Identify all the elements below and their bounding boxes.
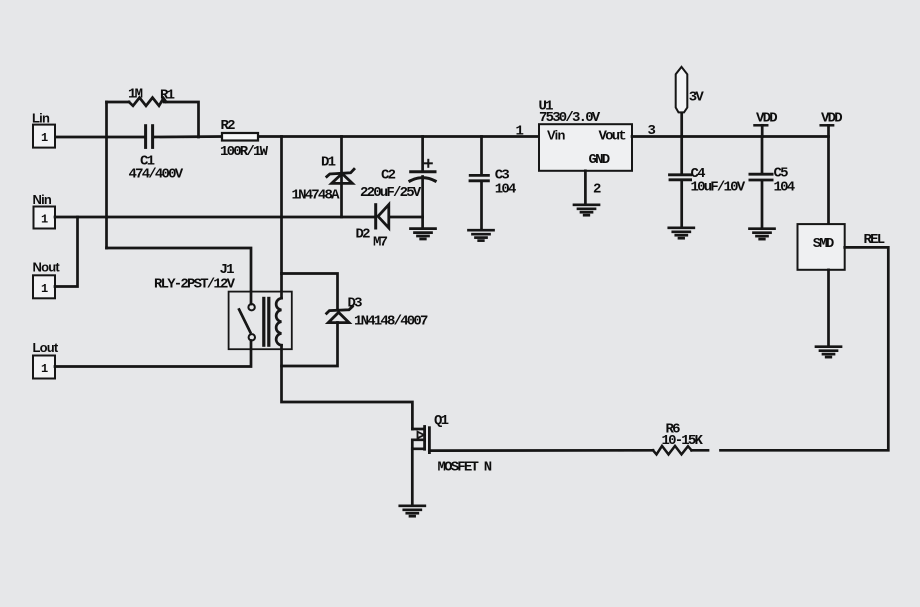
svg-text:474/400V: 474/400V (129, 167, 184, 183)
relay switch contact bottom (249, 334, 255, 340)
wire: neutral line Nin to D2 (55, 216, 374, 219)
svg-text:Nin: Nin (33, 192, 52, 207)
svg-text:1N4748A: 1N4748A (292, 188, 341, 204)
ground under C5 (750, 229, 775, 239)
diode D2 (376, 205, 389, 228)
svg-text:C2: C2 (381, 168, 396, 184)
capacitor C3 (480, 137, 483, 176)
relay J1 box (229, 292, 292, 350)
ground under Q1 (400, 506, 425, 516)
arrow (418, 432, 425, 439)
terminal Lin (33, 125, 55, 148)
capacitor C1 (146, 126, 153, 148)
drain jog (412, 428, 424, 431)
svg-text:104: 104 (495, 182, 516, 198)
ground under U1 (574, 205, 599, 215)
svg-text:M7: M7 (373, 235, 388, 251)
svg-text:2: 2 (593, 182, 601, 198)
relay switch contact top (248, 304, 254, 310)
wire: D3 top branch (282, 274, 338, 310)
capacitor C5 (761, 137, 764, 174)
relay coil (276, 298, 281, 345)
battery 3V (680, 113, 683, 137)
svg-text:100R/1W: 100R/1W (220, 144, 269, 160)
svg-text:Nout: Nout (33, 260, 61, 275)
svg-text:R2: R2 (221, 118, 236, 134)
wire: VDD down to SMD (827, 125, 830, 224)
ground under C2 (411, 229, 436, 239)
svg-text:MOSFET N: MOSFET N (438, 460, 492, 476)
resistor R6 zigzag (653, 446, 692, 455)
diode D3 (327, 307, 353, 323)
svg-text:REL: REL (864, 232, 885, 248)
svg-text:Vin: Vin (547, 128, 565, 143)
svg-text:D2: D2 (356, 227, 371, 243)
wire: R6 to MOSFET gate (692, 449, 709, 452)
wire: R1 bypass branch verticals (105, 102, 108, 248)
capacitor C4 (680, 137, 683, 175)
svg-text:1M: 1M (128, 87, 143, 103)
U1 GND pin wire (584, 171, 587, 204)
svg-text:RLY-2PST/12V: RLY-2PST/12V (154, 277, 236, 293)
terminal Lout (33, 356, 55, 379)
svg-text:SMD: SMD (813, 236, 834, 252)
wire: relay coil bottom to MOSFET drain (282, 345, 413, 429)
wire: U1 Vout output line (632, 135, 829, 138)
svg-text:1: 1 (41, 362, 48, 376)
ground under SMD (816, 347, 841, 357)
svg-text:Lout: Lout (33, 340, 59, 355)
svg-text:7530/3.0V: 7530/3.0V (539, 110, 601, 126)
svg-text:R1: R1 (160, 88, 175, 104)
svg-text:1: 1 (41, 213, 48, 227)
wire: R2 to U1 Vin (258, 135, 539, 138)
zener D1 (340, 137, 343, 218)
ground under C4 (669, 228, 694, 238)
wire: C1 to R2 (154, 135, 222, 138)
wire: D2 to C2 bottom stem (389, 216, 423, 219)
svg-text:1: 1 (41, 282, 48, 296)
wire: D3 bottom branch (282, 323, 338, 367)
svg-text:D3: D3 (348, 296, 363, 312)
ground under C3 (469, 230, 494, 240)
relay switch blade (239, 310, 250, 333)
svg-text:3V: 3V (689, 90, 705, 106)
svg-text:D1: D1 (321, 155, 336, 171)
wire: Nout link to neutral (55, 217, 78, 287)
svg-text:1: 1 (41, 131, 48, 145)
svg-text:GND: GND (589, 152, 610, 168)
wire: relay coil feed from main line (280, 137, 283, 299)
gate bar (428, 428, 431, 453)
svg-text:Q1: Q1 (434, 413, 449, 429)
wire: Lin main line to C1 (55, 136, 144, 139)
capacitor C2 (electrolytic) (421, 137, 424, 172)
svg-text:10uF/10V: 10uF/10V (691, 180, 746, 196)
wire: Q1 source to ground (411, 449, 414, 505)
svg-text:Lin: Lin (32, 111, 50, 126)
wire: Lout to relay switch (55, 341, 251, 367)
resistor R2 body (222, 133, 258, 141)
svg-text:1N4148/4007: 1N4148/4007 (354, 314, 428, 330)
svg-text:10-15K: 10-15K (662, 433, 704, 449)
wire: REL net from SMD to R6 (721, 247, 889, 450)
source loop (412, 440, 424, 449)
SMD box (798, 224, 845, 270)
terminal Nout (33, 275, 55, 298)
wire: relay switch feed (107, 248, 252, 304)
svg-text:220uF/25V: 220uF/25V (360, 185, 422, 201)
resistor R1 zigzag (129, 98, 166, 106)
terminal Nin (34, 207, 56, 229)
channel bar (423, 427, 426, 450)
svg-text:Vout: Vout (599, 129, 627, 145)
regulator U1 (539, 124, 632, 171)
svg-text:104: 104 (774, 180, 795, 196)
wire: SMD to ground (827, 270, 830, 346)
relay core bars (262, 298, 265, 345)
